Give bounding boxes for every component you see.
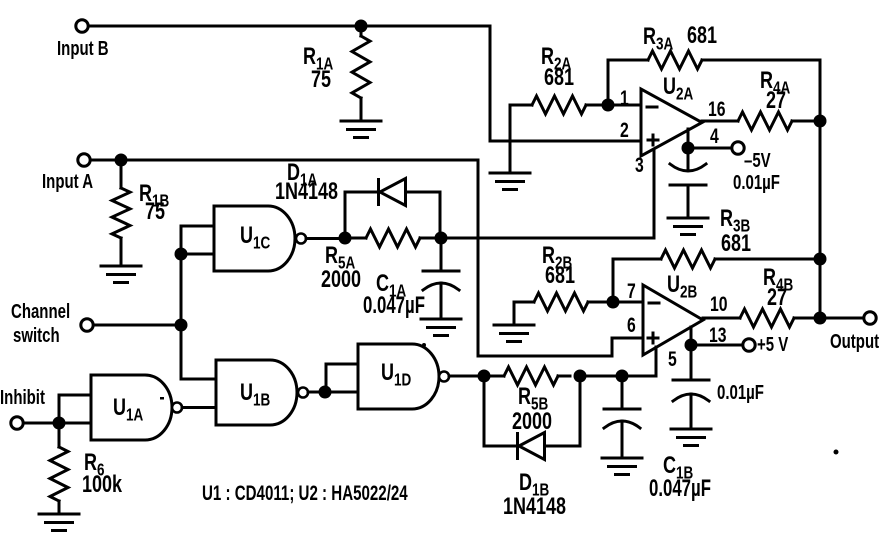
svg-text:75: 75 xyxy=(311,67,331,93)
wire channel node vertical (U1C inputs to U1B input) xyxy=(181,226,216,379)
svg-text:27: 27 xyxy=(767,285,787,311)
resistor R4B xyxy=(740,309,794,327)
svg-text:U2B: U2B xyxy=(667,272,697,302)
svg-text:2000: 2000 xyxy=(512,409,552,435)
svg-text:switch: switch xyxy=(13,324,60,347)
wire Inhibit to U1A lower input xyxy=(66,422,92,425)
resistor R5A xyxy=(352,237,367,240)
diode D1B xyxy=(484,383,516,447)
op-amp U2B xyxy=(643,285,703,355)
wire Input B junction to U2A pin 2 (+) xyxy=(368,26,641,141)
svg-text:6: 6 xyxy=(627,313,636,337)
ground R6 xyxy=(39,514,79,531)
stray dot left xyxy=(422,343,426,347)
svg-text:681: 681 xyxy=(544,65,574,91)
svg-text:R3A: R3A xyxy=(643,24,674,54)
svg-text:2000: 2000 xyxy=(321,267,361,293)
resistor R4A xyxy=(738,112,792,130)
wire U2A pin 4 xyxy=(687,129,690,142)
junction pin 13 bypass xyxy=(685,339,698,352)
svg-text:13: 13 xyxy=(709,323,727,347)
junction R5A right / C1A / pin3 wire xyxy=(435,232,448,245)
wire U1C output to R5A junction xyxy=(306,237,338,240)
capacitor 0.01uF U2A bypass xyxy=(687,155,690,170)
wire R2B left to ground xyxy=(513,302,516,325)
wire pin3 node to U2A pin 3 xyxy=(448,149,655,238)
wire C1B node to U2B pin 5 xyxy=(629,347,657,376)
wire U2B pin 13 xyxy=(690,327,693,339)
resistor R2B xyxy=(514,301,534,304)
wire R5B node to C1B junction xyxy=(587,375,616,378)
ground U2A bypass cap xyxy=(668,218,708,235)
svg-text:0.047µF: 0.047µF xyxy=(649,475,711,502)
wire pin7 node up to R3B xyxy=(613,259,661,302)
wire U1C lower input stub xyxy=(181,253,214,256)
stray dot right xyxy=(834,450,839,455)
resistor R1A xyxy=(360,33,363,37)
wire Input B to R1A junction xyxy=(89,25,355,28)
wire Channel switch to junction xyxy=(94,324,176,327)
ground R2B xyxy=(494,325,534,342)
svg-text:Input A: Input A xyxy=(42,170,93,193)
junction U1C lower input xyxy=(175,248,188,261)
junction R5B left / D1B xyxy=(478,370,491,383)
svg-text:1N4148: 1N4148 xyxy=(503,494,566,520)
ground R1B xyxy=(101,266,141,283)
ground R2A xyxy=(490,173,530,190)
wire U1A output to U1B lower input xyxy=(182,406,216,409)
svg-text:27: 27 xyxy=(766,88,786,114)
svg-text:U1 : CD4011; U2 : HA5022/24: U1 : CD4011; U2 : HA5022/24 xyxy=(202,480,408,504)
wire pin1 node to U2A inverting input xyxy=(615,104,642,107)
diode D1A xyxy=(345,192,377,232)
svg-text:3: 3 xyxy=(635,153,644,177)
wire U1D upper input jog xyxy=(326,364,358,392)
stray speck near U1A xyxy=(160,397,164,400)
wire U1B output to junction xyxy=(308,391,319,394)
svg-text:681: 681 xyxy=(721,231,751,257)
junction R4A / R3A / output bus xyxy=(814,115,827,128)
junction C1B xyxy=(616,370,629,383)
ground U2B bypass cap xyxy=(671,429,711,446)
wire to Output terminal xyxy=(827,317,865,320)
resistor R1B xyxy=(120,167,123,189)
junction R5A left / D1A xyxy=(339,232,352,245)
wire U1D lower input stub xyxy=(332,391,359,394)
nand gate U1B xyxy=(216,360,297,425)
svg-text:4: 4 xyxy=(710,124,719,148)
svg-text:681: 681 xyxy=(545,263,575,289)
svg-text:U2A: U2A xyxy=(663,74,694,104)
wire U1C upper input stub xyxy=(181,225,214,228)
svg-text:0.01µF: 0.01µF xyxy=(733,171,780,194)
svg-text:100k: 100k xyxy=(82,472,122,498)
wire output bus vertical xyxy=(819,60,822,318)
junction Inhibit / R6 xyxy=(53,417,66,430)
svg-text:5: 5 xyxy=(668,347,677,371)
junction R4B / output bus / Output xyxy=(814,312,827,325)
svg-text:16: 16 xyxy=(708,97,726,121)
svg-text:Output: Output xyxy=(830,330,879,353)
wire U1D output to R5B junction xyxy=(449,375,477,378)
capacitor C1B xyxy=(621,383,624,410)
capacitor 0.01uF U2B bypass xyxy=(690,352,693,381)
wire Input A to U2B pin 6 (+) xyxy=(128,160,644,356)
svg-text:75: 75 xyxy=(145,199,165,225)
wire Input A to junction xyxy=(91,159,115,162)
wire U2A output to R4A xyxy=(702,120,738,123)
terminal Inhibit xyxy=(11,417,23,429)
capacitor C1A xyxy=(440,245,443,272)
wire pin 13 to +5V terminal xyxy=(698,344,743,347)
svg-text:2: 2 xyxy=(620,118,629,142)
terminal Input B xyxy=(76,20,88,32)
resistor R5B xyxy=(491,375,505,378)
wire Inhibit to U1A upper input xyxy=(59,395,91,423)
svg-text:Channel: Channel xyxy=(11,300,70,323)
nand gate U1C xyxy=(214,206,295,271)
svg-text:0.01µF: 0.01µF xyxy=(717,381,764,404)
wire pin1 node up to R3A xyxy=(608,60,648,105)
terminal Channel switch xyxy=(81,319,93,331)
wire U2B output to R4B xyxy=(703,317,740,320)
resistor R3B xyxy=(661,250,715,268)
junction R3B / output bus xyxy=(814,253,827,266)
resistor R2A xyxy=(510,104,532,107)
junction pin 4 bypass xyxy=(682,142,695,155)
op-amp U2A xyxy=(641,89,702,156)
svg-text:+5 V: +5 V xyxy=(757,333,788,356)
svg-text:Input B: Input B xyxy=(57,37,109,60)
terminal -5V xyxy=(732,142,744,154)
svg-text:1N4148: 1N4148 xyxy=(275,179,338,205)
junction U2B pin 7 node xyxy=(607,296,620,309)
junction channel switch node xyxy=(175,319,188,332)
svg-text:7: 7 xyxy=(627,279,636,303)
nand gate U1A xyxy=(91,375,172,440)
svg-text:681: 681 xyxy=(687,23,717,49)
svg-text:10: 10 xyxy=(710,292,728,316)
junction R5B right / D1B right xyxy=(574,370,587,383)
ground C1B xyxy=(602,458,642,475)
junction Input A / R1B xyxy=(115,154,128,167)
svg-text:Inhibit: Inhibit xyxy=(0,386,45,409)
wire R2A left to ground xyxy=(509,105,512,172)
svg-text:–5V: –5V xyxy=(744,149,771,172)
terminal Input A xyxy=(78,154,90,166)
svg-text:0.047µF: 0.047µF xyxy=(363,292,425,319)
wire pin 4 to -5V terminal xyxy=(695,147,732,150)
terminal Output xyxy=(864,312,876,324)
wire Inhibit to junction xyxy=(24,422,53,425)
junction U1B output / U1D inputs xyxy=(319,386,332,399)
resistor R3A xyxy=(648,51,702,69)
nand gate U1D xyxy=(358,344,439,409)
ground R1A xyxy=(341,121,381,138)
ground C1A xyxy=(421,319,461,336)
resistor R6 xyxy=(58,430,61,448)
terminal +5V xyxy=(743,339,755,351)
wire pin7 node to U2B inverting input xyxy=(620,301,644,304)
junction Input B / R1A xyxy=(355,20,368,33)
junction U2A pin 1 node xyxy=(602,99,615,112)
